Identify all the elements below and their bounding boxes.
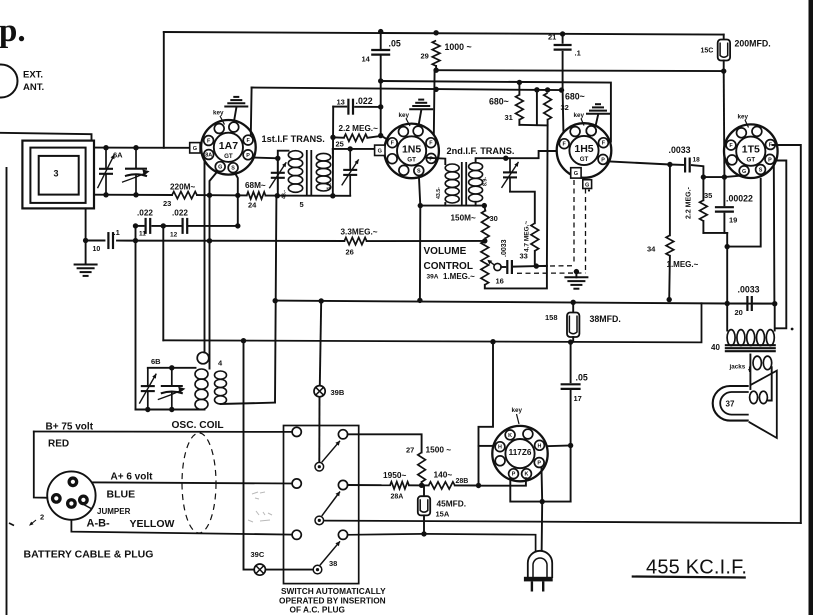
svg-text:37: 37: [726, 400, 735, 409]
wire 2nd IF bottom rail: [420, 205, 484, 207]
wire cap21 top lead: [562, 34, 564, 43]
wire rail B1 (B+): [436, 69, 724, 72]
junction at detector ground: [574, 269, 579, 274]
svg-text:key: key: [399, 112, 410, 119]
switch section 1 blade: [322, 441, 340, 462]
winding value 8.9 (2nd IF): [483, 177, 489, 186]
label 34: [647, 245, 656, 254]
1st IF secondary winding: [316, 153, 330, 191]
svg-text:8A: 8A: [205, 153, 212, 159]
switch section 1 wiper contact: [315, 462, 324, 471]
label 30: [490, 214, 498, 223]
switch section 3 left contact: [292, 530, 301, 539]
key label 1T5: [738, 114, 749, 121]
wire cap19 bottom lead: [723, 214, 725, 233]
switch section 2 wiper contact: [315, 516, 324, 525]
wire AVC bus seg3: [367, 240, 485, 242]
wire cap16 to VC return: [514, 265, 536, 268]
svg-text:39C: 39C: [251, 550, 265, 559]
svg-text:14: 14: [362, 55, 371, 64]
svg-text:11: 11: [139, 231, 146, 238]
volume control 39A (1 MEG pot): [481, 241, 489, 285]
resistor 35 (2.2MEG): [700, 200, 708, 221]
svg-text:S: S: [759, 168, 763, 174]
wire 680-32 bottom long drop to VC return: [546, 120, 549, 266]
svg-text:GT: GT: [580, 156, 589, 163]
wire yellow rail to AC plug: [348, 534, 536, 563]
label 5 (1st IF): [300, 200, 304, 209]
wire B+ drop to 1T5 grid: [723, 71, 726, 177]
label .1 (cap 10): [114, 228, 120, 237]
wire rail C (filament bus): [252, 88, 562, 91]
label 13: [337, 98, 345, 107]
junction rail-A at resistor 29: [433, 30, 438, 35]
junction rail1 at xfmr left: [725, 301, 730, 306]
svg-text:28A: 28A: [391, 494, 404, 501]
value .022 (cap 13): [356, 96, 373, 106]
wire left margin vertical: [6, 168, 8, 615]
capacitor 20 (.0033): [747, 296, 751, 311]
svg-text:455 KC.I.F.: 455 KC.I.F.: [646, 557, 747, 579]
value 680~ (31): [489, 97, 509, 107]
square grid pin 1N5: [375, 145, 385, 155]
wire cap17 chain: [570, 342, 572, 382]
capacitor 13 (.022): [348, 99, 353, 115]
value 68M (24): [245, 181, 266, 190]
resistor 34 (1 MEG): [666, 235, 674, 256]
junction 1500/1950/140: [419, 483, 424, 488]
label 19: [729, 216, 737, 225]
svg-text:38MFD.: 38MFD.: [590, 314, 621, 324]
junction grid row at cap 19: [722, 174, 727, 179]
svg-text:.0033: .0033: [669, 145, 691, 155]
value 38MFD: [590, 314, 621, 324]
label 25: [336, 140, 344, 149]
wire osc right winding bottom: [221, 403, 276, 404]
wire cap13 row right: [355, 106, 381, 108]
ground above 1N5: [409, 100, 433, 110]
2nd IF secondary winding: [469, 163, 483, 202]
wire 1000ohm to 1N5 F: [434, 66, 436, 136]
svg-text:16: 16: [496, 277, 504, 286]
wire 2.2MEG right lead: [367, 136, 380, 138]
pilot lamp 39B: [314, 386, 325, 397]
wire 38MFD bottom lead: [572, 337, 574, 342]
svg-text:2nd.I.F. TRANS.: 2nd.I.F. TRANS.: [447, 146, 515, 156]
svg-text:6A: 6A: [113, 151, 123, 160]
wire cap21 lower / filament line to 1H5 F: [562, 52, 565, 137]
battery plug pin A-B-: [51, 493, 62, 504]
wire cap11-12 row seg1: [136, 225, 144, 227]
key label 1H5: [574, 112, 585, 119]
svg-text:G: G: [742, 169, 746, 175]
caption underline: [632, 577, 746, 578]
resistor 32 (680 ohm): [544, 93, 552, 120]
ground below 1H5 diode: [564, 277, 588, 288]
key pointer 1N5: [406, 119, 410, 127]
wire between 1950 and 140: [409, 484, 429, 486]
switch caption line 3: [290, 605, 345, 615]
label 26: [346, 248, 354, 257]
1st IF core: [307, 150, 312, 196]
junction 2nd IF bottom at 150M: [482, 203, 487, 208]
pointer arrow for 2: [29, 520, 36, 526]
value .0033 (cap 20): [738, 285, 760, 295]
jack arrow: [748, 367, 751, 373]
label 2nd I.F TRANS: [447, 146, 515, 156]
junction 1st IF sec trimmer top: [348, 146, 353, 151]
wire rail2 ground bus: [163, 303, 701, 342]
junction plate row at P-right drop: [540, 499, 545, 504]
wire xfmr primary right lead: [774, 304, 776, 331]
wire 1A7 G pin down to osc winding: [210, 173, 217, 369]
svg-text:2: 2: [40, 513, 44, 522]
electrolytic capacitor 158 (38MFD): [567, 313, 579, 338]
wire ext-antenna lead: [0, 133, 92, 141]
battery plug pin B+: [68, 476, 79, 487]
svg-text:3.3MEG.~: 3.3MEG.~: [341, 228, 378, 237]
capacitor 10 (.1): [108, 232, 113, 249]
wire H-left tap: [479, 445, 493, 447]
wire cap14 bottom lead: [380, 56, 382, 81]
svg-text:1A7: 1A7: [219, 140, 238, 152]
svg-text:.022: .022: [137, 209, 153, 218]
value .0033 (cap16): [501, 239, 508, 257]
svg-text:BLUE: BLUE: [107, 489, 136, 501]
value .022 (cap 12): [172, 209, 188, 218]
wire grid box vertical x333: [332, 107, 334, 196]
label 39A: [427, 274, 439, 281]
switch section 2 left contact: [292, 479, 301, 488]
battery plug circle: [47, 471, 95, 519]
jumper link: [80, 503, 92, 510]
resistor 28B (140 ohm): [429, 482, 455, 489]
resistor 25 (2.2MEG): [344, 134, 368, 141]
capacitor 17 (.05): [561, 384, 581, 389]
capacitor 12 (.022): [183, 218, 188, 234]
junction osc rail at padder: [169, 407, 174, 412]
junction osc rail at 6B: [145, 407, 150, 412]
value 150M (30): [451, 214, 476, 223]
resistor 30 (150M): [482, 211, 490, 239]
wire secondary right lead: [768, 367, 771, 400]
svg-text:.1: .1: [114, 228, 120, 237]
svg-text:21: 21: [548, 33, 556, 42]
tube V4 1T5GT: [724, 124, 778, 178]
svg-text:8.9-: 8.9-: [483, 177, 489, 186]
label VOLUME: [424, 246, 467, 257]
svg-text:1950~: 1950~: [383, 470, 406, 480]
speaker magnet (37): [713, 386, 749, 421]
label OSC. COIL: [172, 420, 224, 431]
svg-text:1000 ~: 1000 ~: [445, 42, 472, 52]
wire K-bottom lead: [479, 478, 526, 486]
svg-text:35: 35: [704, 191, 712, 200]
svg-text:S: S: [231, 166, 235, 172]
junction rail B2 at 680-31: [517, 80, 522, 85]
junction 45MFD at yellow rail: [421, 531, 426, 536]
wire cap20 left lead: [727, 303, 745, 305]
osc coil right winding (4): [215, 371, 227, 404]
2nd IF core: [462, 162, 466, 205]
junction x380 at 2.2MEG: [378, 133, 383, 138]
junction cap16 output: [534, 263, 539, 268]
svg-text:G: G: [378, 149, 382, 155]
svg-text:.05: .05: [389, 39, 401, 49]
svg-text:680~: 680~: [565, 92, 585, 102]
label 28B: [456, 478, 469, 485]
label 6B: [151, 357, 161, 366]
logo text fragment 'p.': [0, 13, 26, 49]
external antenna terminal circle: [0, 65, 18, 98]
svg-text:YELLOW: YELLOW: [130, 518, 175, 530]
svg-text:19: 19: [729, 216, 737, 225]
key label 1N5: [399, 112, 410, 119]
svg-text:1T5: 1T5: [742, 144, 760, 156]
capacitor 11 (.022): [146, 218, 151, 234]
electrolytic capacitor 15C (200MFD): [718, 40, 730, 61]
label 24: [248, 201, 257, 210]
label BATTERY CABLE & PLUG: [24, 549, 154, 561]
wire 35/19 bottom row: [703, 232, 727, 234]
label 15A: [436, 510, 450, 519]
switch section 3 wiper contact: [313, 565, 322, 574]
label 14: [362, 55, 371, 64]
wire 1N5 top cap to ground: [419, 111, 422, 125]
winding value 4.2 (1st IF): [327, 181, 333, 190]
label 40: [711, 343, 720, 352]
output transformer core: [725, 345, 776, 351]
junction rail2 at lamp 39C chain: [241, 338, 246, 343]
svg-text:20: 20: [735, 308, 743, 317]
junction rail C end at cap21 line: [559, 87, 564, 92]
speaker cone: [749, 371, 777, 438]
switch section 2 right contact: [338, 480, 347, 489]
wire 1st IF primary box: [278, 151, 289, 196]
wire lamp39C to switch: [266, 569, 314, 571]
svg-text:3: 3: [54, 169, 59, 179]
wire top rail A: [164, 32, 724, 35]
label 6A: [113, 151, 123, 160]
svg-text:4.2-: 4.2-: [327, 181, 333, 190]
key pointer 1T5: [745, 120, 749, 128]
svg-text:43.-: 43.-: [282, 190, 288, 199]
trimmer capacitor 1st IF primary: [269, 161, 286, 191]
svg-text:.0033: .0033: [501, 239, 508, 257]
wire 1T5 plate drop: [773, 163, 776, 304]
ground above 1A7: [224, 97, 248, 107]
label 1st I.F TRANS: [262, 134, 325, 144]
wire 1A7 S pin down to cap12 row: [235, 173, 238, 226]
svg-text:G: G: [218, 165, 222, 171]
junction grid rail at IF primary: [275, 193, 280, 198]
junction rail1 at 38MFD: [571, 300, 576, 305]
value 220M (23): [170, 183, 195, 192]
junction x380 at cap13: [378, 104, 383, 109]
resistor 33 (4.7MEG): [531, 223, 539, 251]
svg-text:4.7 MEG.~: 4.7 MEG.~: [524, 221, 531, 252]
wire B+ down to plug: [34, 432, 51, 498]
faint pencil marks: [248, 492, 272, 522]
svg-text:45MFD.: 45MFD.: [437, 499, 467, 509]
wire cap11-12 row seg2: [152, 225, 181, 227]
svg-text:.0033: .0033: [738, 285, 760, 295]
wire xfmr primary left lead: [726, 304, 728, 331]
label A-B-: [87, 518, 111, 530]
label 39B: [331, 388, 345, 397]
variable capacitor 6A (tuning): [98, 148, 115, 195]
osc coil top curl: [197, 352, 209, 364]
wire A+ to switch: [78, 482, 292, 483]
wire rail C drop to 1A7 F: [250, 88, 253, 135]
wire 680-31 bottom lead: [518, 120, 520, 125]
svg-text:.1: .1: [575, 49, 581, 58]
value 45MFD: [437, 499, 467, 509]
svg-text:28B: 28B: [456, 478, 469, 485]
switch section 3 blade: [320, 541, 340, 565]
wire 1st IF secondary top rail: [333, 148, 377, 150]
svg-text:EXT.: EXT.: [23, 70, 43, 81]
svg-text:S: S: [417, 169, 421, 175]
svg-text:1N5: 1N5: [402, 143, 421, 155]
label 17: [574, 394, 582, 403]
svg-text:RED: RED: [48, 439, 69, 450]
svg-text:JUMPER: JUMPER: [97, 507, 131, 516]
svg-text:G: G: [574, 171, 578, 177]
resistor 31 (680 ohm): [516, 95, 524, 120]
label 21: [548, 33, 556, 42]
svg-text:150M~: 150M~: [451, 214, 476, 223]
junction 2nd IF trimmer top: [503, 156, 508, 161]
svg-text:31: 31: [505, 113, 513, 122]
wire loop bottom rail seg3: [266, 195, 351, 197]
wire 1st IF secondary top: [332, 149, 334, 154]
wire loop bottom rail seg1: [94, 194, 172, 196]
svg-text:1500 ~: 1500 ~: [426, 445, 452, 455]
wire cap14 drop x380 to 1N5 F-left: [381, 81, 391, 141]
junction rail2 at cap17: [568, 339, 573, 344]
speck mid right: [588, 189, 590, 191]
wire x493 drop: [479, 342, 494, 486]
svg-text:18: 18: [693, 157, 701, 164]
wire resistor34 bottom lead: [668, 256, 671, 300]
svg-text:P: P: [246, 153, 250, 159]
svg-text:10: 10: [93, 246, 101, 253]
value 1.MEG: [443, 272, 475, 281]
resistor 29 (1000 ohm): [432, 41, 440, 67]
svg-text:GT: GT: [224, 153, 233, 160]
label 2 (plug): [40, 513, 44, 522]
junction cap18 row at resistor 34: [667, 162, 672, 167]
svg-text:OF A.C. PLUG: OF A.C. PLUG: [290, 605, 345, 615]
wire resistor34 top lead: [669, 165, 671, 236]
output transformer secondary: [753, 356, 772, 370]
speck near speaker: [791, 328, 794, 331]
junction rail C at 1N5 filament: [433, 87, 438, 92]
label B+ 75 volt: [46, 422, 94, 433]
wire osc feed drop x163: [162, 226, 164, 340]
dashed diode return lines: [517, 180, 586, 273]
svg-text:G: G: [193, 146, 197, 152]
wire 1T5 F-right to frame: [773, 145, 801, 523]
label RED: [48, 439, 69, 450]
osc padder capacitor: [158, 368, 186, 410]
label 31: [505, 113, 513, 122]
wire cap18 to 1T5 grid wire: [692, 165, 704, 177]
svg-text:17: 17: [574, 394, 582, 403]
svg-text:4: 4: [218, 359, 223, 368]
svg-text:ANT.: ANT.: [23, 82, 44, 93]
scan edge artifact right: [809, 0, 813, 615]
svg-text:H: H: [498, 445, 502, 451]
label 29: [421, 52, 429, 61]
wire 38MFD top lead: [572, 302, 574, 312]
junction 200MFD at rail B1: [721, 68, 726, 73]
svg-text:jacks: jacks: [729, 364, 746, 371]
junction cap17 line at H-right: [568, 443, 573, 448]
label 12: [170, 232, 178, 239]
svg-text:key: key: [574, 112, 585, 119]
svg-text:GT: GT: [747, 157, 756, 164]
junction rail1 at 1N5 S chain: [417, 298, 422, 303]
wire 45MFD top lead: [423, 485, 425, 496]
wire detector ground stem: [575, 272, 577, 278]
ground below loop antenna: [74, 265, 98, 276]
svg-text:P: P: [601, 157, 605, 163]
svg-text:24: 24: [248, 201, 257, 210]
value 200MFD: [735, 39, 771, 49]
key pointer 117Z6: [517, 414, 520, 424]
junction AVC at cap11 drop: [133, 238, 138, 243]
junction 2nd IF bottom at S chain: [418, 203, 423, 208]
junction rail C at 536: [534, 87, 539, 92]
resistor 26 (3.3 MEG): [344, 238, 366, 245]
wire cap19 top lead: [723, 177, 725, 205]
svg-text:1H5: 1H5: [574, 143, 593, 155]
junction grid rail at 1A7 S drop: [235, 193, 240, 198]
svg-text:G: G: [585, 182, 589, 188]
tube V3 1H5GT: [557, 123, 612, 178]
svg-text:2.2 MEG.-: 2.2 MEG.-: [686, 186, 693, 219]
svg-text:33: 33: [520, 252, 528, 261]
svg-text:key: key: [738, 114, 749, 121]
value 680~ (32): [565, 92, 585, 102]
svg-text:GT: GT: [407, 156, 416, 163]
switch caption line 1: [281, 586, 386, 596]
value 1950~ (28A): [383, 470, 406, 480]
wire loop top to 1A7 grid box: [94, 147, 191, 149]
key label 117Z6: [512, 407, 523, 414]
wire bottom row drop to rail1: [726, 233, 728, 304]
svg-text:43.5-: 43.5-: [436, 187, 442, 199]
junction rail C at 680-32: [545, 87, 550, 92]
value .05 (cap 17): [576, 373, 588, 383]
wire 150M to VC top: [484, 238, 487, 241]
svg-text:key: key: [512, 407, 523, 414]
key label 1A7: [213, 110, 224, 117]
svg-text:158: 158: [545, 313, 558, 322]
label JUMPER: [97, 507, 131, 516]
switch section 1 left contact: [292, 427, 301, 436]
wire 1A7 GA pin down to osc coil curl: [204, 160, 206, 353]
wire 4.7MEG bottom: [534, 251, 536, 266]
junction AVC rail left: [83, 238, 88, 243]
capacitor 18 (.0033): [685, 158, 690, 173]
svg-text:.05: .05: [576, 373, 588, 383]
wire rail B2 (screen) to 1H5 filament: [381, 81, 611, 142]
tube V1 1A7GT: [201, 120, 256, 175]
resistor 27 (1500 ohm): [418, 452, 426, 482]
